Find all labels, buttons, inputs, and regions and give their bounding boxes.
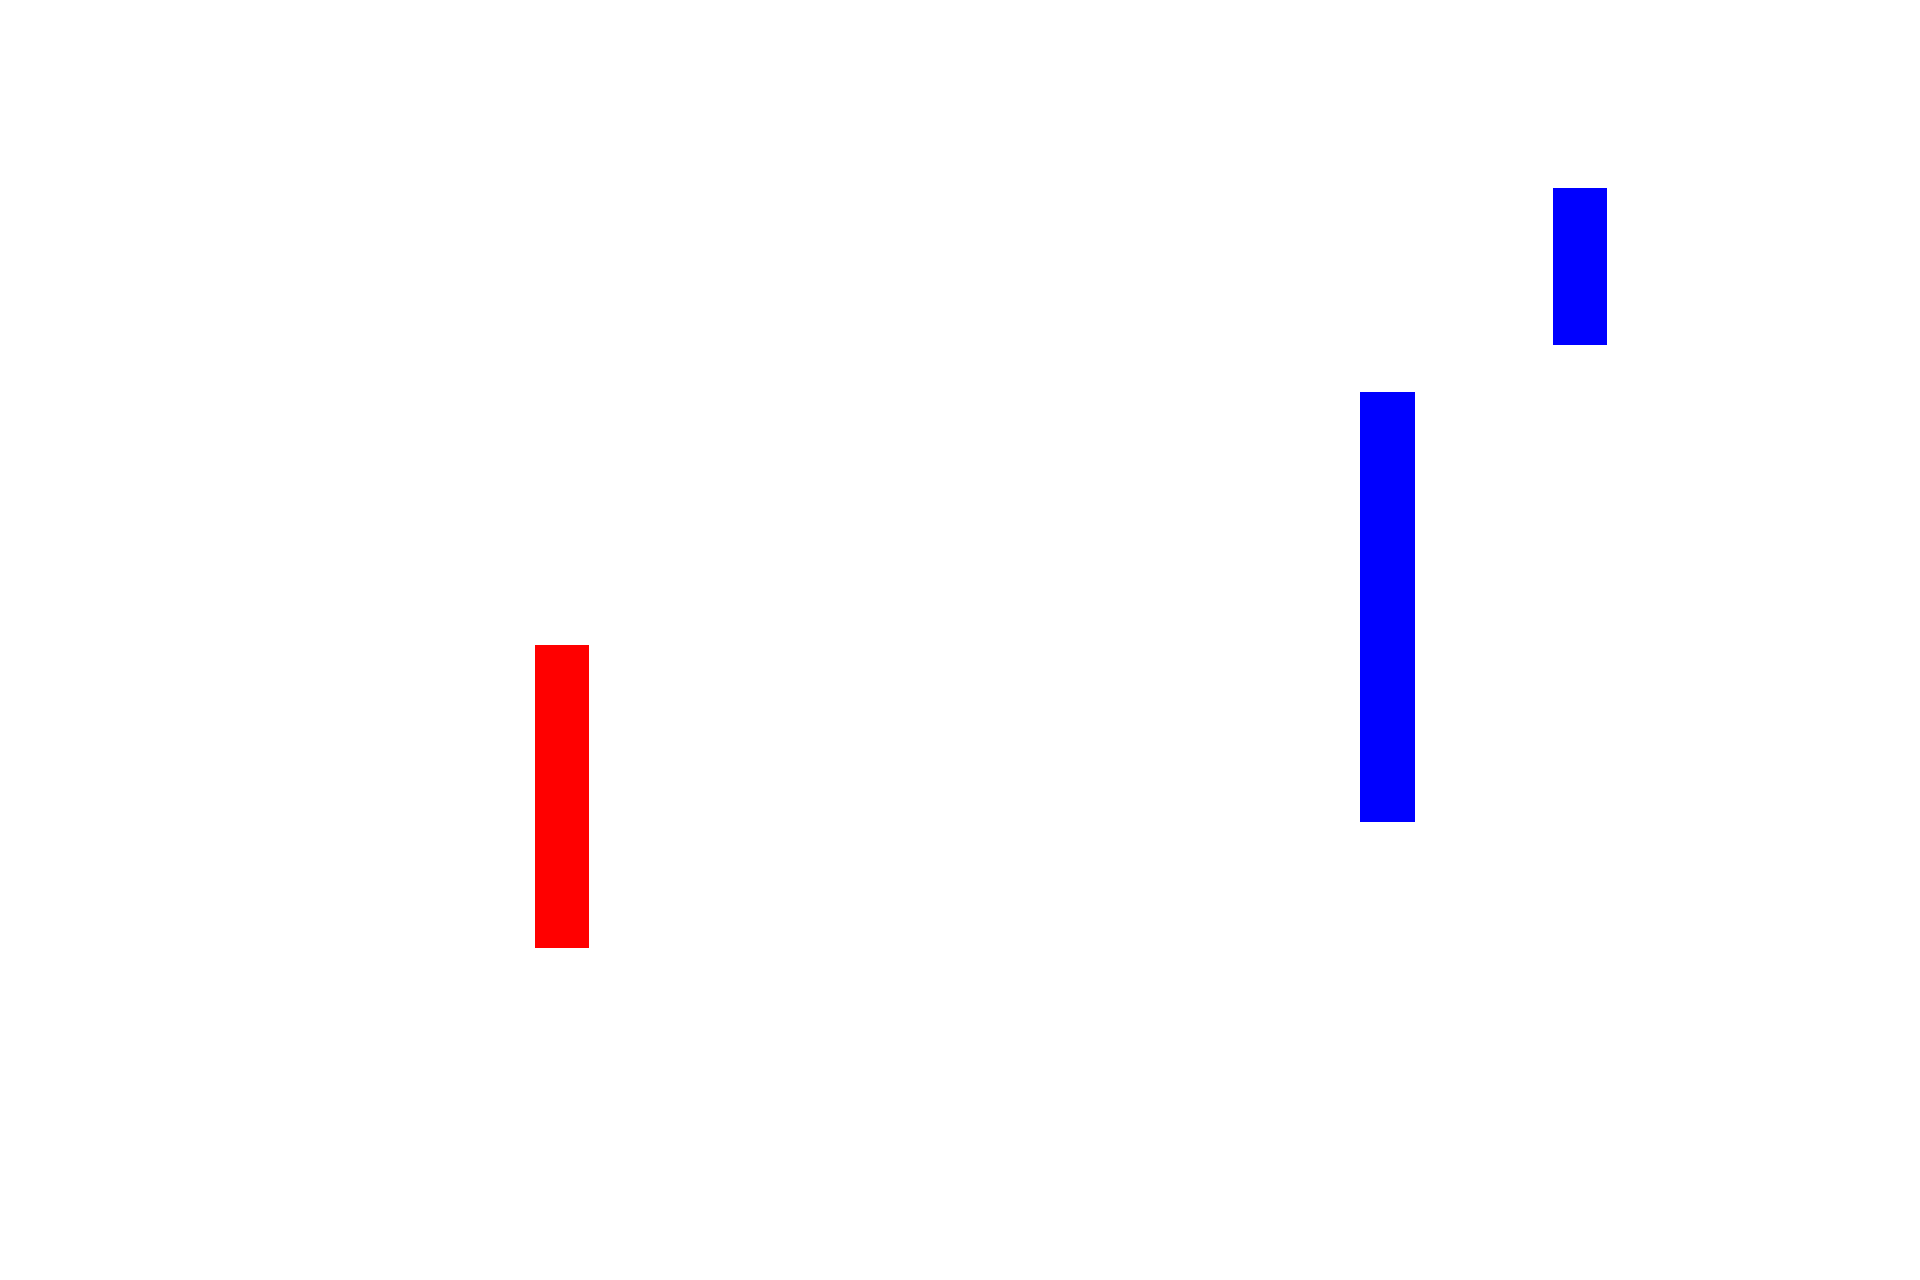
- blue bar 2: [1553, 188, 1607, 345]
- red bar: [535, 645, 589, 948]
- blue bar 1: [1360, 392, 1415, 822]
